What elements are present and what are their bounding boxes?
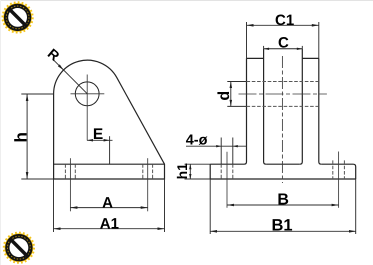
svg-text:E: E xyxy=(93,126,103,143)
svg-text:B: B xyxy=(277,192,289,209)
svg-text:C1: C1 xyxy=(275,12,294,29)
svg-text:A1: A1 xyxy=(100,216,119,233)
svg-text:A: A xyxy=(102,194,113,211)
svg-text:B1: B1 xyxy=(271,216,292,234)
svg-text:d: d xyxy=(216,91,233,101)
svg-text:4-ø: 4-ø xyxy=(186,132,208,148)
svg-text:C: C xyxy=(278,35,289,52)
svg-text:h: h xyxy=(11,132,30,142)
svg-text:h1: h1 xyxy=(174,163,190,180)
